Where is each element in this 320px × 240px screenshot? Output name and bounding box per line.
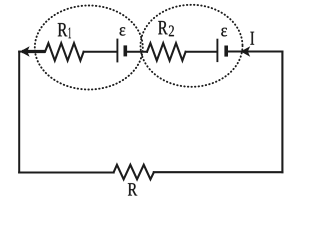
wire: left rail (top-left corner down to bottom-left corner) (18, 52, 20, 173)
label epsilon 2 (emf of battery 2) (221, 28, 227, 37)
wire: battery 2 to top-right corner (228, 51, 282, 53)
wire: bottom rail, right segment (154, 171, 283, 173)
resistor R (zigzag, bottom) (114, 165, 154, 180)
battery internal-resistance boundary 1 (dotted ellipse) (35, 6, 143, 90)
wire: battery 1 to R2 (127, 51, 147, 53)
label epsilon 1 (emf of battery 1) (120, 27, 126, 35)
battery 2 negative plate (short thick) (224, 46, 228, 57)
wire: R2 to battery 2 (186, 51, 217, 53)
label R2 (158, 21, 174, 36)
battery 1 negative plate (short thick) (124, 45, 128, 56)
resistor R1 (zigzag) (45, 43, 84, 60)
wire: bottom rail, left segment (19, 171, 113, 173)
label I (current) (250, 32, 254, 45)
battery 2 positive plate (long thin) (216, 39, 218, 62)
resistor R2 (zigzag) (147, 43, 186, 60)
label R (bottom resistor) (128, 183, 137, 195)
wire: R1 to battery 1 (84, 51, 117, 53)
wire: right rail (281, 52, 283, 173)
battery internal-resistance boundary 2 (dotted ellipse) (141, 5, 243, 87)
label R1 (58, 23, 71, 38)
current arrow at top-left (bold, pointing left) (20, 46, 45, 56)
wire: top-left corner stub (19, 51, 22, 53)
battery 1 positive plate (long thin) (116, 39, 118, 63)
current arrowhead on top-right wire (241, 46, 251, 57)
